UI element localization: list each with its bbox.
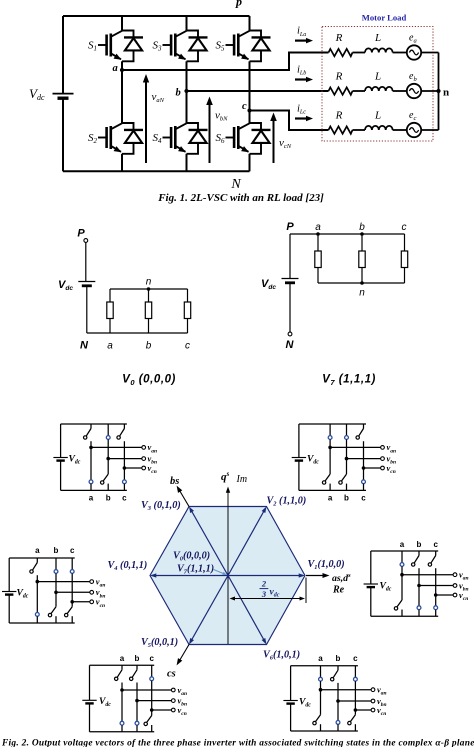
svg-text:c: c	[402, 222, 407, 233]
svg-text:a: a	[89, 494, 94, 503]
svg-text:V1(1,0,0): V1(1,0,0)	[308, 559, 345, 571]
svg-text:Im: Im	[236, 474, 248, 485]
svg-text:p: p	[235, 0, 242, 9]
svg-text:bs: bs	[170, 476, 179, 487]
svg-text:V3 (0,1,0): V3 (0,1,0)	[141, 500, 181, 512]
svg-text:2: 2	[261, 579, 267, 589]
svg-text:b: b	[336, 654, 341, 663]
svg-text:P: P	[77, 228, 85, 240]
svg-text:c: c	[433, 540, 438, 549]
svg-text:V0 (0,0,0): V0 (0,0,0)	[122, 374, 176, 387]
svg-text:a: a	[400, 540, 405, 549]
svg-text:c: c	[361, 494, 366, 503]
svg-text:L: L	[374, 32, 381, 44]
svg-text:N: N	[80, 340, 89, 352]
svg-text:a: a	[328, 494, 333, 503]
svg-text:c: c	[70, 546, 75, 555]
svg-text:V7(1,1,1): V7(1,1,1)	[177, 564, 214, 576]
svg-text:L: L	[374, 110, 381, 122]
svg-text:b: b	[135, 654, 140, 663]
svg-text:a: a	[120, 654, 125, 663]
svg-text:a: a	[113, 63, 118, 74]
svg-text:n: n	[359, 288, 365, 299]
svg-text:V7 (1,1,1): V7 (1,1,1)	[322, 374, 376, 387]
svg-text:V5(0,0,1): V5(0,0,1)	[141, 637, 178, 649]
svg-text:V0(0,0,0): V0(0,0,0)	[173, 551, 210, 563]
svg-text:b: b	[146, 341, 152, 352]
svg-text:a: a	[107, 341, 113, 352]
svg-text:P: P	[286, 221, 294, 233]
svg-text:b: b	[359, 222, 365, 233]
svg-text:V6(1,0,1): V6(1,0,1)	[263, 650, 300, 662]
svg-text:3: 3	[261, 589, 267, 599]
svg-text:c: c	[242, 101, 247, 112]
svg-text:R: R	[335, 110, 343, 122]
svg-text:V4 (0,1,1): V4 (0,1,1)	[108, 560, 148, 572]
svg-text:Re: Re	[332, 585, 345, 596]
svg-text:cs: cs	[167, 669, 176, 680]
svg-text:c: c	[149, 654, 154, 663]
svg-text:n: n	[146, 277, 152, 288]
svg-text:R: R	[335, 71, 343, 83]
svg-text:N: N	[230, 177, 241, 192]
svg-text:n: n	[443, 87, 449, 99]
svg-text:a: a	[318, 654, 323, 663]
svg-text:a: a	[35, 546, 40, 555]
svg-text:b: b	[344, 494, 349, 503]
svg-text:Fig. 2. Output voltage vector: Fig. 2. Output voltage vectors of the th…	[1, 739, 474, 748]
svg-text:b: b	[54, 546, 59, 555]
svg-text:a: a	[315, 222, 321, 233]
svg-text:c: c	[185, 341, 190, 352]
svg-text:V2 (1,1,0): V2 (1,1,0)	[267, 496, 307, 508]
svg-text:c: c	[353, 654, 358, 663]
svg-text:R: R	[335, 32, 343, 44]
svg-text:c: c	[122, 494, 127, 503]
svg-text:Motor Load: Motor Load	[362, 13, 407, 23]
svg-text:L: L	[374, 71, 381, 83]
svg-text:b: b	[417, 540, 422, 549]
svg-text:Fig. 1. 2L-VSC with an RL loa: Fig. 1. 2L-VSC with an RL load [23]	[157, 192, 324, 204]
svg-text:b: b	[106, 494, 111, 503]
svg-text:b: b	[176, 88, 181, 99]
svg-text:N: N	[286, 339, 295, 351]
